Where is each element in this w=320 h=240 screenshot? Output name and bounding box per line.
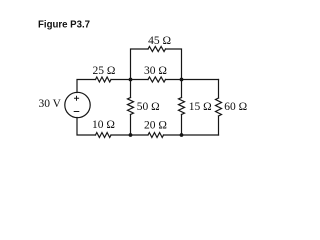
voltage source minus sign [74,111,80,113]
svg-text:Figure P3.7: Figure P3.7 [38,19,90,31]
resistor 25 ohm (zigzag) [96,77,112,82]
wire: middle rail left segment (source top to 25 ohm) [77,80,96,93]
wire: bottom rail between 10 ohm and 20 ohm [111,134,148,136]
wire: 50 ohm branch bottom stub [130,115,132,136]
svg-text:30 Ω: 30 Ω [144,65,167,77]
wire: top loop right vertical (down to node B) [166,49,182,80]
resistor 15 ohm (zigzag) [179,98,185,115]
voltage source 30 V (circle) [65,92,90,117]
wire: top loop left vertical (node A up) [131,49,149,80]
resistor 60 ohm (zigzag) [216,98,222,116]
wire: 15 ohm branch top stub [181,80,183,98]
svg-text:45 Ω: 45 Ω [148,35,171,47]
resistor 30 ohm (zigzag) [148,77,166,82]
resistor 10 ohm (zigzag) [96,133,112,138]
svg-text:15 Ω: 15 Ω [189,101,212,113]
resistor 45 ohm (zigzag) [148,47,166,52]
resistor 50 ohm (zigzag) [128,98,134,115]
wire: 60 ohm branch bottom stub [218,116,220,135]
resistor 20 ohm (zigzag) [148,133,164,138]
wire: 50 ohm branch top stub [130,80,132,98]
wire: left branch bottom (source bottom to bottom rail) [77,118,96,136]
svg-text:30 V: 30 V [39,98,62,110]
wire: 15 ohm branch bottom stub [181,115,183,136]
svg-text:50 Ω: 50 Ω [137,101,160,113]
junction dot below node A (bottom rail) [129,133,133,137]
wire: 60 ohm branch top stub [218,80,220,99]
svg-text:10 Ω: 10 Ω [92,119,115,131]
junction dot below node B (bottom rail) [180,133,184,137]
svg-text:60 Ω: 60 Ω [224,101,247,113]
svg-text:20 Ω: 20 Ω [144,119,167,131]
wire: middle rail from 30 ohm to right corner [166,79,219,81]
wire: middle rail between 25 ohm and 30 ohm (node A) [111,79,148,81]
voltage source plus sign [74,96,79,101]
node B junction dot (top) [180,78,184,82]
node A junction dot (top) [129,78,133,82]
wire: bottom rail from 20 ohm to right corner [164,134,219,136]
svg-text:25 Ω: 25 Ω [93,65,116,77]
